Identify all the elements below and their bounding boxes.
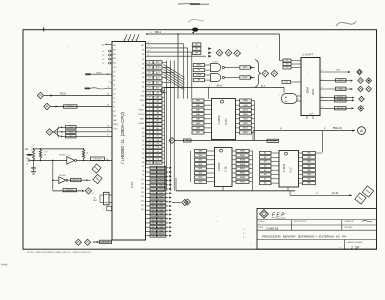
svg-text:23: 23 xyxy=(108,86,110,88)
svg-text:A3: A3 xyxy=(157,115,159,118)
svg-text:M1: M1 xyxy=(142,105,144,107)
svg-text:A6: A6 xyxy=(142,62,144,65)
svg-text:BA0: BA0 xyxy=(160,230,164,233)
svg-text:MB5: MB5 xyxy=(199,181,203,183)
svg-text:A7: A7 xyxy=(142,58,144,61)
svg-text:A6: A6 xyxy=(157,104,159,107)
svg-text:8: 8 xyxy=(136,40,137,42)
svg-text:RA6: RA6 xyxy=(307,173,311,176)
svg-text:HALT: HALT xyxy=(113,119,117,122)
svg-text:DART: DART xyxy=(312,88,315,95)
svg-text:18: 18 xyxy=(149,162,151,164)
svg-text:MWR: MWR xyxy=(243,77,248,79)
svg-text:10: 10 xyxy=(152,201,154,203)
svg-text:BA3: BA3 xyxy=(160,217,164,220)
svg-text:RAM0: RAM0 xyxy=(243,113,248,116)
svg-text:10: 10 xyxy=(149,132,151,134)
svg-text:13: 13 xyxy=(149,143,151,145)
svg-text:28: 28 xyxy=(148,72,150,74)
svg-text:B16: B16 xyxy=(141,205,144,207)
svg-text:B1: B1 xyxy=(142,140,144,142)
svg-text:MA4: MA4 xyxy=(196,117,200,120)
svg-text:D3: D3 xyxy=(156,147,158,149)
svg-text:D6: D6 xyxy=(113,85,115,87)
svg-text:11: 11 xyxy=(152,206,154,208)
svg-text:INT0: INT0 xyxy=(69,131,73,133)
svg-text:TRXCA: TRXCA xyxy=(337,99,344,102)
svg-text:RFSH: RFSH xyxy=(197,75,202,77)
svg-text:BA6: BA6 xyxy=(160,205,164,208)
svg-text:30: 30 xyxy=(148,62,150,64)
svg-text:16: 16 xyxy=(149,155,151,157)
svg-text:8: 8 xyxy=(149,124,150,126)
svg-text:BD0: BD0 xyxy=(160,197,164,199)
svg-text:8: 8 xyxy=(107,135,108,137)
svg-text:RA8: RA8 xyxy=(307,182,311,185)
svg-text:A5: A5 xyxy=(142,67,144,70)
svg-text:BA5: BA5 xyxy=(160,209,164,212)
svg-text:MA2: MA2 xyxy=(196,108,200,111)
svg-text:MB3: MB3 xyxy=(199,173,203,175)
svg-text:MA6: MA6 xyxy=(196,127,200,130)
svg-text:1 —: 1 — xyxy=(243,229,247,231)
svg-text:MB2: MB2 xyxy=(199,168,203,170)
svg-text:8: 8 xyxy=(132,40,133,42)
svg-text:A11: A11 xyxy=(113,44,116,47)
svg-text:42: 42 xyxy=(280,128,282,130)
svg-text:6: 6 xyxy=(298,99,299,101)
svg-text:20: 20 xyxy=(148,50,150,52)
svg-text:CAS/RAS: CAS/RAS xyxy=(269,139,277,142)
svg-text:BD4: BD4 xyxy=(160,180,164,182)
svg-text:BA7: BA7 xyxy=(160,200,164,203)
svg-text:RESET: RESET xyxy=(139,109,145,111)
svg-text:BUSAK: BUSAK xyxy=(139,122,146,125)
svg-text:IORQ: IORQ xyxy=(113,129,118,131)
svg-text:27: 27 xyxy=(148,77,150,79)
svg-text:RA3: RA3 xyxy=(307,160,311,163)
svg-text:TXD: TXD xyxy=(336,70,341,72)
svg-text:MRD: MRD xyxy=(243,67,248,69)
svg-text:RA2: RA2 xyxy=(307,156,311,159)
svg-text:6: 6 xyxy=(153,184,154,186)
svg-text:X1: X1 xyxy=(92,193,94,195)
svg-text:P14: P14 xyxy=(285,67,288,69)
svg-text:D4: D4 xyxy=(113,71,115,73)
svg-text:74LS04: 74LS04 xyxy=(59,175,66,177)
svg-text:A: A xyxy=(360,128,363,133)
svg-text:A9: A9 xyxy=(142,49,144,52)
svg-text:MB0: MB0 xyxy=(199,159,203,161)
svg-text:21: 21 xyxy=(148,54,150,56)
svg-text:5: 5 xyxy=(209,85,210,87)
svg-text:CAS1: CAS1 xyxy=(243,122,248,125)
svg-text:RA4: RA4 xyxy=(307,165,311,168)
svg-text:RFSH: RFSH xyxy=(140,100,145,102)
svg-text:NOTES: RESISTORS ARE IN OHMS,: NOTES: RESISTORS ARE IN OHMS, 1/4W, 5%. … xyxy=(27,251,91,254)
svg-text:SYNCX: SYNCX xyxy=(67,106,75,108)
svg-text:12: 12 xyxy=(149,139,151,141)
svg-text:J-3844: J-3844 xyxy=(217,115,221,125)
svg-text:A4: A4 xyxy=(264,165,266,168)
svg-text:P12: P12 xyxy=(285,60,288,62)
svg-text:D0: D0 xyxy=(156,158,158,160)
svg-text:13: 13 xyxy=(152,214,154,216)
svg-text:5: 5 xyxy=(149,112,150,114)
svg-text:A1: A1 xyxy=(142,85,144,88)
svg-text:A0: A0 xyxy=(195,43,197,46)
svg-text:MREQ: MREQ xyxy=(196,65,202,67)
svg-text:MREQ: MREQ xyxy=(155,162,161,164)
svg-text:A0: A0 xyxy=(157,127,159,130)
svg-text:B10: B10 xyxy=(141,179,144,181)
svg-text:/ LH0080 -1L (Z80A-CPU): / LH0080 -1L (Z80A-CPU) xyxy=(120,112,125,164)
svg-text:A14: A14 xyxy=(113,57,116,60)
svg-text:MA9: MA9 xyxy=(199,154,203,157)
svg-text:17: 17 xyxy=(149,158,151,160)
svg-text:B12: B12 xyxy=(141,188,144,190)
svg-text:A3: A3 xyxy=(264,160,266,163)
svg-text:PROCESSOR, MEMORY, BUFFERING: PROCESSOR, MEMORY, BUFFERING — EXTERNAL … xyxy=(262,234,347,238)
svg-text:B14: B14 xyxy=(141,196,144,198)
svg-text:D3: D3 xyxy=(113,76,115,78)
svg-text:B6: B6 xyxy=(142,162,144,164)
svg-text:INT1: INT1 xyxy=(69,127,73,129)
svg-text:B7: B7 xyxy=(142,166,144,168)
svg-text:D7: D7 xyxy=(113,98,115,100)
svg-text:B0: B0 xyxy=(142,136,144,138)
svg-text:D6: D6 xyxy=(156,135,158,137)
svg-text:B13: B13 xyxy=(141,192,144,194)
svg-text:RAMB: RAMB xyxy=(240,163,246,166)
svg-text:BD6: BD6 xyxy=(160,172,164,174)
svg-text:RAM8: RAM8 xyxy=(240,150,245,153)
svg-text:A8: A8 xyxy=(142,53,144,56)
svg-text:MA8: MA8 xyxy=(199,150,203,153)
svg-text:U-7b: U-7b xyxy=(225,166,228,172)
svg-text:3: 3 xyxy=(153,172,154,174)
svg-text:3 —: 3 — xyxy=(243,237,247,239)
svg-text:29: 29 xyxy=(148,67,150,69)
svg-text:PCLK2: PCLK2 xyxy=(73,180,79,182)
svg-text:U-16: U-16 xyxy=(224,119,228,125)
svg-text:B2: B2 xyxy=(142,145,144,147)
svg-text:F E P: F E P xyxy=(272,212,285,218)
svg-text:15: 15 xyxy=(149,151,151,153)
svg-text:A4: A4 xyxy=(142,72,144,75)
svg-text:9: 9 xyxy=(149,128,150,130)
svg-text:.1: .1 xyxy=(37,166,39,168)
svg-text:11: 11 xyxy=(149,135,151,137)
svg-text:MUX0: MUX0 xyxy=(243,109,248,111)
svg-text:7: 7 xyxy=(153,189,154,191)
svg-text:9: 9 xyxy=(153,197,154,199)
svg-text:RAMA: RAMA xyxy=(240,158,246,161)
svg-text:B5: B5 xyxy=(142,158,144,160)
svg-text:2 MAR 83: 2 MAR 83 xyxy=(265,226,278,230)
svg-text:6: 6 xyxy=(107,158,108,160)
svg-text:D0: D0 xyxy=(113,102,115,104)
svg-text:2: 2 xyxy=(153,167,154,169)
svg-text:26: 26 xyxy=(107,94,109,96)
svg-text:B8: B8 xyxy=(142,170,144,172)
svg-text:57: 57 xyxy=(316,193,318,195)
svg-text:RA7: RA7 xyxy=(307,177,311,180)
svg-text:D2: D2 xyxy=(113,93,115,95)
svg-text:8: 8 xyxy=(153,193,154,195)
svg-text:A2: A2 xyxy=(142,81,144,84)
svg-text:A8: A8 xyxy=(264,182,266,185)
svg-text:R21: R21 xyxy=(26,158,29,160)
svg-text:A1: A1 xyxy=(157,123,159,126)
svg-text:RAMC: RAMC xyxy=(240,167,246,170)
svg-text:RAM1: RAM1 xyxy=(243,131,248,134)
svg-text:BRQ: BRQ xyxy=(159,235,164,237)
svg-text:5: 5 xyxy=(298,94,299,96)
svg-text:MA1: MA1 xyxy=(196,104,200,107)
svg-text:A10: A10 xyxy=(141,44,144,47)
svg-text:A3: A3 xyxy=(142,76,144,79)
svg-text:5: 5 xyxy=(153,180,154,182)
svg-text:OSCOUT: OSCOUT xyxy=(102,242,111,244)
svg-text:MA5: MA5 xyxy=(196,122,200,125)
svg-text:RAS1: RAS1 xyxy=(243,117,248,120)
svg-text:B4: B4 xyxy=(142,153,144,155)
svg-text:RAM9: RAM9 xyxy=(240,154,245,157)
svg-text:12: 12 xyxy=(152,210,154,212)
svg-text:D1: D1 xyxy=(113,107,115,109)
svg-text:Z80A: Z80A xyxy=(306,87,310,93)
svg-text:RTXCA: RTXCA xyxy=(337,96,344,99)
svg-text:24: 24 xyxy=(107,105,109,107)
svg-text:14: 14 xyxy=(152,218,154,220)
svg-text:NMI: NMI xyxy=(113,115,117,117)
svg-text:D5: D5 xyxy=(113,80,115,82)
svg-text:RA5: RA5 xyxy=(307,169,311,172)
svg-text:17: 17 xyxy=(152,231,154,233)
svg-text:B15: B15 xyxy=(141,201,144,203)
svg-text:DRAWING NUMBER: DRAWING NUMBER xyxy=(347,241,364,244)
svg-text:D7: D7 xyxy=(156,132,158,134)
svg-text:17: 17 xyxy=(107,130,109,132)
svg-text:MUX1: MUX1 xyxy=(243,128,248,130)
svg-text:SCALE: SCALE xyxy=(259,220,266,223)
svg-text:14: 14 xyxy=(149,147,151,149)
svg-text:18: 18 xyxy=(152,235,154,237)
svg-text:27: 27 xyxy=(148,42,150,44)
svg-text:47: 47 xyxy=(324,128,326,130)
svg-text:74LS32: 74LS32 xyxy=(212,62,218,64)
svg-text:A13: A13 xyxy=(113,53,116,56)
svg-text:WAIT: WAIT xyxy=(140,118,144,121)
svg-text:A15: A15 xyxy=(113,62,116,65)
svg-text:5: 5 xyxy=(151,32,152,34)
svg-text:DRAWN BY: DRAWN BY xyxy=(345,220,355,223)
svg-text:CPUCLK: CPUCLK xyxy=(93,159,102,161)
svg-text:A7: A7 xyxy=(264,177,266,180)
svg-text:7: 7 xyxy=(149,120,150,122)
svg-text:RXD: RXD xyxy=(339,88,344,90)
svg-text:MB4: MB4 xyxy=(199,177,203,179)
svg-text:A1: A1 xyxy=(264,152,266,155)
svg-text:U-17: U-17 xyxy=(290,167,293,173)
svg-text:3: 3 xyxy=(149,105,150,107)
svg-text:A5: A5 xyxy=(157,108,159,111)
svg-text:MA3: MA3 xyxy=(196,113,200,116)
svg-text:D4: D4 xyxy=(156,143,158,145)
svg-text:26: 26 xyxy=(148,82,150,84)
svg-text:U-2: U-2 xyxy=(68,154,71,156)
svg-text:74LS04: 74LS04 xyxy=(59,154,66,156)
svg-text:BA2: BA2 xyxy=(160,222,164,225)
svg-text:1-3611: 1-3611 xyxy=(282,163,286,172)
svg-text:D2: D2 xyxy=(156,151,158,153)
svg-text:CAS0: CAS0 xyxy=(243,104,248,107)
svg-text:A5: A5 xyxy=(264,169,266,172)
svg-text:4: 4 xyxy=(149,109,150,111)
svg-text:BD5: BD5 xyxy=(160,176,164,178)
svg-text:APPROVED BY: APPROVED BY xyxy=(294,220,308,223)
svg-text:A2: A2 xyxy=(264,156,266,159)
svg-text:U-10: U-10 xyxy=(130,181,134,188)
svg-text:PCLK: PCLK xyxy=(60,94,66,96)
svg-text:INT: INT xyxy=(113,111,116,113)
svg-text:RAS0: RAS0 xyxy=(243,99,248,102)
svg-text:8: 8 xyxy=(128,40,129,42)
svg-text:D5: D5 xyxy=(156,139,158,141)
svg-text:BA4: BA4 xyxy=(160,213,164,216)
svg-text:+5: +5 xyxy=(108,82,110,84)
svg-text:A2: A2 xyxy=(157,119,159,122)
svg-text:A4: A4 xyxy=(157,112,159,115)
svg-text:A1-8: A1-8 xyxy=(217,84,223,87)
svg-text:A12: A12 xyxy=(113,48,116,51)
svg-text:MB1: MB1 xyxy=(199,164,203,166)
svg-text:A8: A8 xyxy=(157,96,159,99)
svg-text:NMI: NMI xyxy=(69,136,73,138)
svg-text:B17: B17 xyxy=(141,209,144,211)
svg-text:REVISED: REVISED xyxy=(345,227,354,229)
svg-text:RAME: RAME xyxy=(240,176,246,179)
svg-text:19: 19 xyxy=(148,46,150,48)
svg-text:PCLKOUT: PCLKOUT xyxy=(66,190,74,192)
svg-text:MA0: MA0 xyxy=(196,99,200,102)
svg-text:BD7: BD7 xyxy=(160,167,164,169)
svg-text:BD1: BD1 xyxy=(160,193,164,195)
svg-text:P13: P13 xyxy=(285,64,288,66)
svg-text:U-DART: U-DART xyxy=(302,53,314,57)
svg-text:A7: A7 xyxy=(157,100,159,103)
svg-text:1 OF: 1 OF xyxy=(351,245,360,249)
svg-text:MREQ: MREQ xyxy=(113,124,119,126)
svg-text:DATE: DATE xyxy=(259,226,264,229)
svg-text:8: 8 xyxy=(124,40,125,42)
svg-text:BUSRQ: BUSRQ xyxy=(96,72,102,74)
svg-text:1: 1 xyxy=(149,97,150,99)
svg-text:RAMD: RAMD xyxy=(240,172,246,175)
svg-text:MA7: MA7 xyxy=(196,131,200,134)
svg-text:16: 16 xyxy=(107,126,109,128)
svg-text:4: 4 xyxy=(153,176,154,178)
svg-text:24: 24 xyxy=(148,93,150,95)
svg-text:B9: B9 xyxy=(142,175,144,177)
svg-text:BD2: BD2 xyxy=(160,189,164,191)
svg-text:6: 6 xyxy=(149,116,150,118)
svg-text:M8-1: M8-1 xyxy=(155,30,161,34)
svg-text:01-19: 01-19 xyxy=(332,192,339,195)
svg-text:D1: D1 xyxy=(156,155,158,157)
svg-text:2: 2 xyxy=(149,101,150,103)
svg-text:2 —: 2 — xyxy=(243,233,247,235)
svg-text:B11: B11 xyxy=(141,183,144,185)
svg-text:B3: B3 xyxy=(142,149,144,151)
svg-text:C1: C1 xyxy=(26,164,28,166)
svg-text:RXTXCB: RXTXCB xyxy=(337,108,345,110)
svg-text:RA1: RA1 xyxy=(307,152,311,155)
svg-text:15: 15 xyxy=(152,223,154,225)
svg-text:J-8304: J-8304 xyxy=(217,162,221,171)
svg-text:A6: A6 xyxy=(264,173,266,176)
svg-text:BA1: BA1 xyxy=(160,226,164,229)
svg-text:BUSRQ: BUSRQ xyxy=(138,114,145,116)
svg-text:25: 25 xyxy=(148,87,150,89)
svg-text:BD3: BD3 xyxy=(160,184,164,186)
svg-text:16: 16 xyxy=(152,227,154,229)
svg-text:A0: A0 xyxy=(142,90,144,93)
svg-text:DTR: DTR xyxy=(339,80,344,82)
svg-text:BW1-19: BW1-19 xyxy=(333,127,342,130)
